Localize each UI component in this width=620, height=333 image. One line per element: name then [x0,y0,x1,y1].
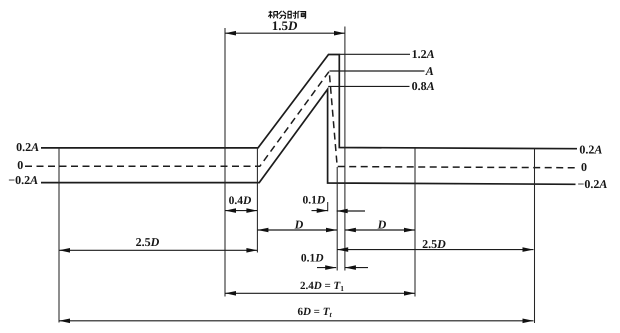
nominal dashed waveform (0 baseline, peak A) [25,71,577,168]
svg-text:2.4D = T1: 2.4D = T1 [300,280,344,293]
svg-text:0.1D: 0.1D [302,194,325,206]
char 间 [298,11,306,19]
dimension 0.1D lower arrows tails [317,267,368,269]
svg-text:A: A [425,64,434,78]
arrowhead 2.5D left dim, right end [246,248,257,253]
svg-text:0: 0 [581,160,587,174]
extension line 1.5D left / 0.4D left / 2.4D left [224,28,226,297]
svg-text:0.2A: 0.2A [579,142,602,156]
dimension 6D line [59,320,534,322]
svg-text:−0.2A: −0.2A [578,177,608,191]
extension line nominal zero crossing (0.1D boundaries / 2.5D right start) [336,167,338,271]
dimension 2.5D right line [337,249,533,251]
arrowhead 6D left [59,319,70,324]
svg-text:0: 0 [17,158,23,172]
dimension 2.4D line [225,292,415,294]
arrowhead D right dim, right end [404,228,415,233]
dimension 2.5D left line [59,249,257,251]
leader line 1.2A [340,53,410,55]
arrowhead 2.5D right dim, right end [523,247,534,252]
arrowhead 0.1D lower left (points right) [325,265,336,270]
extension line integration window end (1.5D right / 0.1D lower right / D right start) [344,27,346,271]
svg-text:1.2A: 1.2A [412,47,435,61]
svg-text:−0.2A: −0.2A [8,173,38,187]
upper tolerance envelope (0.2A baseline, 1.2A plateau) [41,55,577,149]
svg-text:2.5D: 2.5D [422,237,446,251]
svg-text:1.5D: 1.5D [272,18,298,33]
dimension 1.5D line [225,32,345,34]
extension line left end (6D / 2.5D origin) [58,148,60,323]
arrowhead 0.1D upper right (points left) [337,209,348,214]
char 积 [268,11,272,18]
arrowhead 2.5D left dim, left end [59,248,70,253]
extension line 6D right / 2.5D right end [534,149,536,324]
leader line A [329,70,424,72]
arrowhead 0.4D right [246,208,257,213]
svg-text:0.1D: 0.1D [301,253,324,265]
svg-text:D: D [377,218,387,232]
arrowhead 0.1D lower right (points left) [345,265,356,270]
label 积分时间 (hand drawn strokes) [268,11,305,19]
arrowhead 1.5D right [334,31,345,36]
arrowhead 2.4D left [225,291,236,296]
svg-text:D: D [294,218,304,232]
extension line 2.4D right / D right end [414,147,416,297]
arrowhead 0.1D upper left (points right) [317,208,328,213]
arrowhead 1.5D left [225,31,236,36]
arrowhead D right dim, left end [345,228,356,233]
lower tolerance envelope (-0.2A baseline, 0.8A peak) [41,89,576,184]
leader line 0.8A [328,85,409,87]
extension tick at nominal fall start (0.1D upper left) [327,202,329,211]
dimension 0.4D line [225,210,257,212]
svg-text:0.8A: 0.8A [412,79,435,93]
svg-text:0.4D: 0.4D [229,195,252,207]
arrowhead 2.5D right dim, left end [337,247,348,252]
dimension D right line [345,229,415,231]
dimension 0.1D upper arrows tails [312,210,366,212]
extension line rise start (0.4D right / D left / 2.5D right-end-left) [256,147,258,253]
arrowhead D left dim, left end [257,228,268,233]
dimension D left line [257,229,337,231]
svg-text:0.2A: 0.2A [16,140,39,154]
arrowhead D left dim, right end [326,228,337,233]
char 分 [278,11,286,19]
arrowhead 2.4D right [404,291,415,296]
arrowhead 0.4D left [225,208,236,213]
arrowhead 6D right [523,319,534,324]
svg-text:6D = Tt: 6D = Tt [297,306,332,319]
char 时 [288,11,291,18]
svg-text:2.5D: 2.5D [136,235,160,249]
